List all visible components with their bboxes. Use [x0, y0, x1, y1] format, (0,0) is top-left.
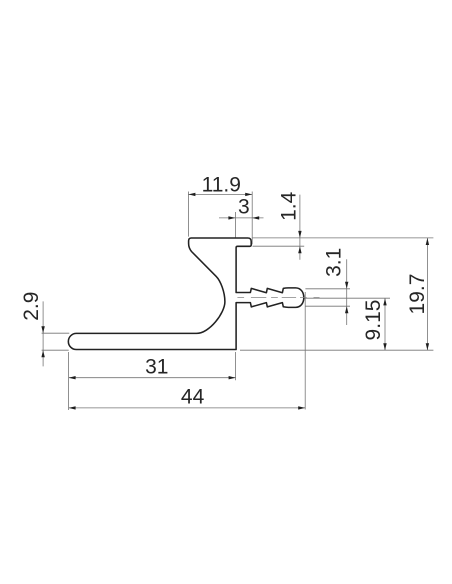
arrowheads: [41, 193, 429, 410]
ext lip inner (for 3): [234, 212, 236, 244]
dim line 2.9 upper: [42, 301, 44, 366]
svg-text:11.9: 11.9: [202, 173, 241, 196]
arrow 19.7 top: [426, 238, 429, 245]
ext arm bottom (for 2.9): [42, 349, 69, 351]
svg-text:3.1: 3.1: [323, 248, 346, 277]
svg-text:19.7: 19.7: [406, 274, 429, 315]
ext top edge (for 1.4 and 19.7): [253, 237, 434, 239]
dimension texts: [20, 173, 429, 408]
arrow 11.9 right: [245, 193, 252, 196]
dim line 11.9: [188, 193, 252, 195]
centerline through barb: [237, 297, 319, 299]
dimension lines: [43, 194, 427, 408]
ext bottom edge (for 9.15 and 19.7): [240, 349, 433, 351]
arrow 19.7 bottom: [426, 343, 429, 350]
arrow 2.9 bottom (outside): [41, 350, 44, 357]
svg-text:1.4: 1.4: [277, 191, 300, 221]
arrow 3 right (outside): [252, 216, 259, 219]
arrow 3.1 bottom (outside): [345, 306, 348, 313]
dim line 9.15: [384, 298, 386, 350]
ext flange right (for 11.9 and 3): [251, 192, 253, 245]
svg-text:31: 31: [145, 356, 168, 379]
dim line 31: [69, 377, 236, 379]
arrow 44 right: [298, 406, 305, 409]
svg-text:3: 3: [238, 196, 250, 219]
dim line 1.4 upper: [299, 195, 301, 260]
arrow 3 left (outside): [228, 216, 235, 219]
arrow 9.15 top: [383, 298, 386, 305]
arrow 9.15 bottom: [383, 343, 386, 350]
dim line 3: [219, 217, 264, 219]
profile outline: [68, 238, 303, 350]
dim line 3.1 upper: [346, 259, 348, 325]
arrow 1.4 bottom (outside): [298, 246, 301, 253]
extension lines: [42, 192, 434, 411]
arrow 31 left: [69, 376, 76, 379]
ext centerline (for 9.15): [303, 297, 390, 299]
dim line 44: [69, 407, 306, 409]
ext barb bottom (for 3.1): [305, 305, 350, 307]
arrow 44 left: [69, 406, 76, 409]
arrow 3.1 top (outside): [345, 282, 348, 289]
arrow 1.4 top (outside): [298, 231, 301, 238]
ext arm top (for 2.9): [42, 332, 70, 334]
arrow 11.9 left: [188, 193, 195, 196]
ext flange left (for 11.9): [187, 192, 189, 237]
svg-text:2.9: 2.9: [20, 292, 43, 321]
svg-text:9.15: 9.15: [362, 300, 385, 341]
ext barb top (for 3.1): [305, 288, 350, 290]
arrow 31 right: [229, 376, 236, 379]
ext arm left (for 31 and 44): [68, 352, 70, 410]
ext wall right (for 31): [235, 352, 237, 380]
svg-text:44: 44: [181, 386, 205, 409]
dim line 19.7: [426, 238, 428, 350]
arrow 2.9 top (outside): [41, 326, 44, 333]
ext lip bottom (for 1.4): [253, 245, 305, 247]
ext nose tip (for 44): [304, 292, 306, 410]
